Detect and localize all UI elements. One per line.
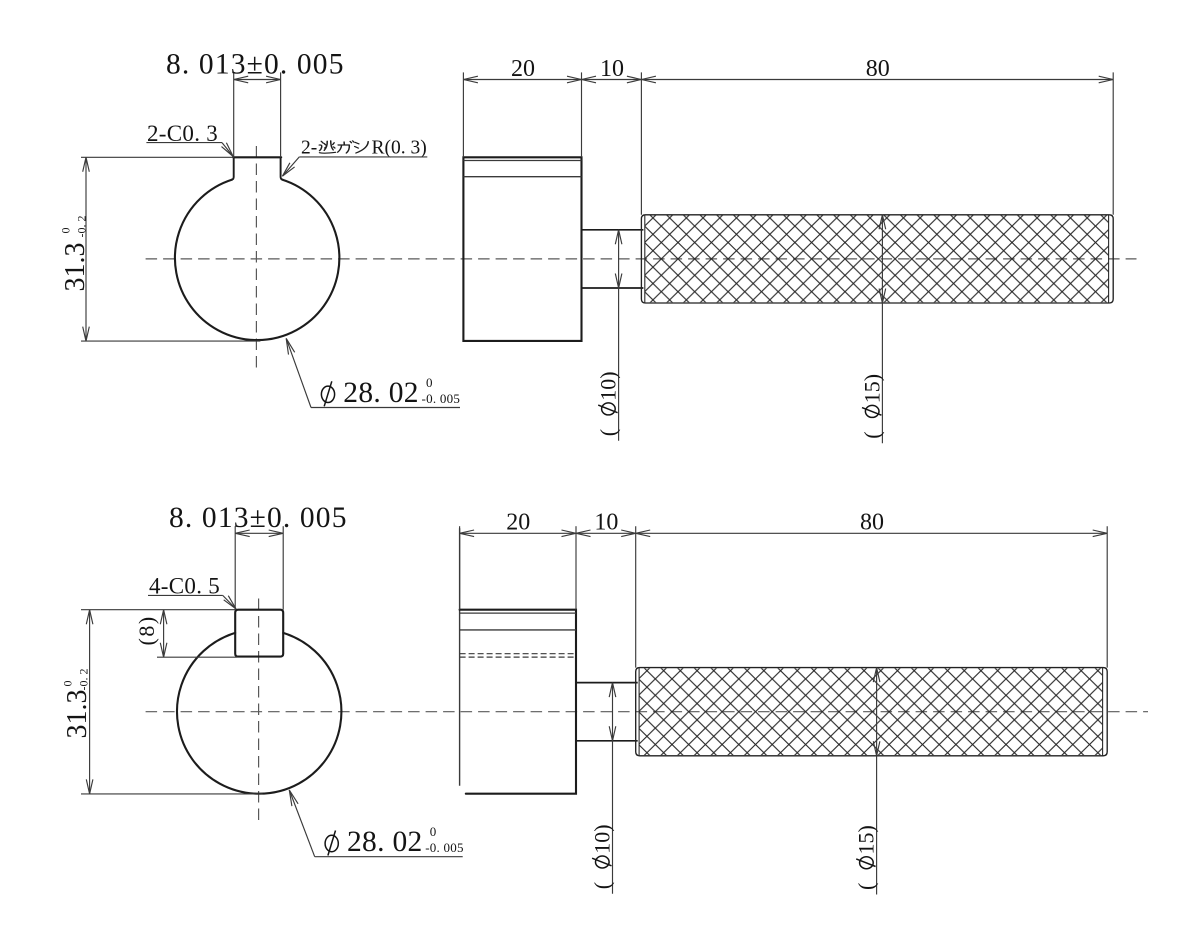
lower side view left edge (thin): [459, 528, 461, 786]
svg-text:(8): (8): [134, 615, 159, 645]
upper 2-C0.3 leader: [222, 143, 233, 157]
lower 20 left extension line: [459, 526, 461, 610]
upper front-view vertical centerline: [255, 146, 257, 370]
svg-text:0: 0: [430, 824, 437, 839]
upper dimension text 31.3 0/-0.2 (rotated): [59, 216, 92, 292]
upper side view disc outline (20 wide): [463, 157, 581, 341]
upper shaft bottom line (phi10): [582, 287, 644, 289]
upper 8.013 right extension line: [280, 72, 282, 157]
lower (phi15) dimension line: [876, 668, 878, 895]
svg-text:0: 0: [59, 228, 73, 234]
lower front-view vertical centerline: [258, 599, 260, 823]
lower 31.3 dimension line: [89, 610, 91, 794]
lower 8.013 dimension line: [235, 532, 283, 534]
upper knurl left chamfer edge: [644, 215, 646, 303]
lower side view circle-top tangent line: [460, 629, 576, 631]
lower 8.013 left extension line: [234, 526, 236, 610]
upper 31.3 top extension line: [81, 156, 234, 158]
svg-text:(: (: [596, 429, 621, 436]
upper nigashi label underline: [299, 156, 427, 158]
svg-text:(: (: [859, 431, 884, 438]
svg-text:-0. 2: -0. 2: [77, 669, 91, 691]
svg-text:20: 20: [506, 510, 530, 536]
svg-text:31.3: 31.3: [62, 690, 93, 739]
svg-text:10: 10: [594, 510, 618, 536]
lower phi28.02 leader line: [289, 790, 314, 857]
lower 31.3 top extension line: [81, 609, 235, 611]
svg-text:15): 15): [854, 825, 879, 854]
upper 20/10 shared extension line: [581, 72, 583, 157]
lower slot tab rectangle (8 deep, 4-C0.5): [235, 610, 283, 657]
lower phi28.02 underline: [315, 856, 463, 858]
upper 80 right extension line: [1112, 72, 1114, 214]
svg-text:28. 02: 28. 02: [347, 826, 423, 858]
lower hidden slot bottom dashed line upper: [460, 653, 576, 655]
upper 10/80 shared extension line: [640, 72, 642, 214]
lower 8.013 right extension line: [282, 526, 284, 610]
upper side view circle-top line: [463, 176, 581, 178]
upper side view chamfer line: [463, 160, 581, 162]
upper dimension text (phi10): [596, 371, 621, 436]
svg-text:R(0. 3): R(0. 3): [372, 138, 427, 159]
upper 20 left extension line: [462, 72, 464, 157]
svg-text:10: 10: [600, 56, 624, 82]
svg-text:8. 013±0. 005: 8. 013±0. 005: [166, 48, 345, 80]
lower dimension text (phi15): [854, 825, 879, 890]
upper phi28.02 underline: [311, 407, 460, 409]
lower knurled handle outline (80 long, phi15): [636, 668, 1107, 756]
lower shaft bottom line (phi10): [576, 740, 638, 742]
svg-text:80: 80: [860, 510, 884, 536]
svg-text:(: (: [590, 882, 615, 889]
upper 20-10-80 dimension line: [463, 79, 1113, 81]
svg-text:28. 02: 28. 02: [343, 377, 419, 409]
upper shaft top line (phi10): [582, 229, 644, 231]
upper 2-C0.3 underline: [146, 142, 222, 144]
lower (8) bottom extension line: [157, 656, 238, 658]
upper 31.3 bottom extension line: [81, 340, 260, 342]
upper disc circle outline (phi28.02) with slot gap: [175, 180, 339, 340]
lower disc circle outline (phi28.02) with slot gap: [177, 633, 341, 794]
svg-text:-0. 2: -0. 2: [75, 216, 89, 238]
svg-text:0: 0: [61, 681, 75, 687]
upper (phi10) dimension line: [618, 230, 620, 441]
lower dimension text (8) (rotated): [134, 615, 159, 645]
svg-text:31.3: 31.3: [60, 243, 91, 292]
lower knurl left chamfer edge: [638, 668, 640, 756]
svg-text:8. 013±0. 005: 8. 013±0. 005: [169, 502, 348, 534]
lower 4-C0.5 leader: [223, 595, 236, 609]
upper nigashi leader: [282, 157, 299, 176]
svg-text:80: 80: [866, 56, 890, 82]
upper (phi15) dimension line: [881, 215, 883, 443]
upper slot right wall with relief R0.3: [281, 157, 283, 179]
lower knurl right chamfer edge: [1102, 668, 1104, 756]
svg-text:-0. 005: -0. 005: [425, 840, 464, 855]
upper phi symbol of phi28.02: [321, 381, 334, 406]
upper horizontal centerline: [146, 258, 1137, 260]
lower (phi10) dimension line: [612, 683, 614, 894]
upper phi28.02 leader line: [286, 338, 311, 407]
lower 10/80 shared extension line: [635, 526, 637, 667]
upper knurl right chamfer edge: [1108, 215, 1110, 303]
svg-text:20: 20: [511, 56, 535, 82]
lower 20/10 shared extension line: [575, 526, 577, 610]
lower shaft top line (phi10): [576, 682, 638, 684]
lower 20-10-80 dimension line: [460, 532, 1108, 534]
svg-text:(: (: [854, 883, 879, 890]
svg-text:15): 15): [859, 374, 884, 403]
lower phi symbol of phi28.02: [325, 831, 338, 856]
lower side view chamfer line: [460, 612, 576, 614]
svg-text:2-: 2-: [301, 138, 317, 159]
lower hidden slot bottom dashed line lower: [460, 656, 576, 658]
upper 31.3 dimension line: [85, 157, 87, 341]
svg-text:-0. 005: -0. 005: [422, 391, 461, 406]
lower dimension text 31.3 0/-0.2 (rotated): [61, 669, 94, 739]
upper knurling cross-hatch pattern: [645, 216, 1109, 303]
upper 8.013 dimension line: [234, 79, 281, 81]
lower horizontal centerline: [146, 711, 1148, 713]
lower 80 right extension line: [1106, 526, 1108, 667]
lower side view disc outline: [460, 610, 576, 794]
lower 4-C0.5 underline: [148, 594, 223, 596]
lower (8) dimension line: [163, 610, 165, 658]
upper slot left wall with relief R0.3: [232, 157, 234, 179]
upper slot top flat (8.013 width): [233, 156, 281, 158]
svg-text:4-C0. 5: 4-C0. 5: [149, 574, 220, 599]
svg-text:0: 0: [426, 375, 433, 390]
lower 31.3 bottom extension line: [81, 793, 263, 795]
svg-text:10): 10): [590, 824, 615, 853]
upper knurled handle outline (80 long, phi15): [641, 215, 1113, 303]
upper dimension text (phi15): [859, 374, 884, 439]
upper 8.013 left extension line: [233, 72, 235, 157]
lower knurling cross-hatch pattern: [639, 668, 1103, 755]
svg-text:10): 10): [596, 371, 621, 400]
lower dimension text (phi10): [590, 824, 615, 889]
